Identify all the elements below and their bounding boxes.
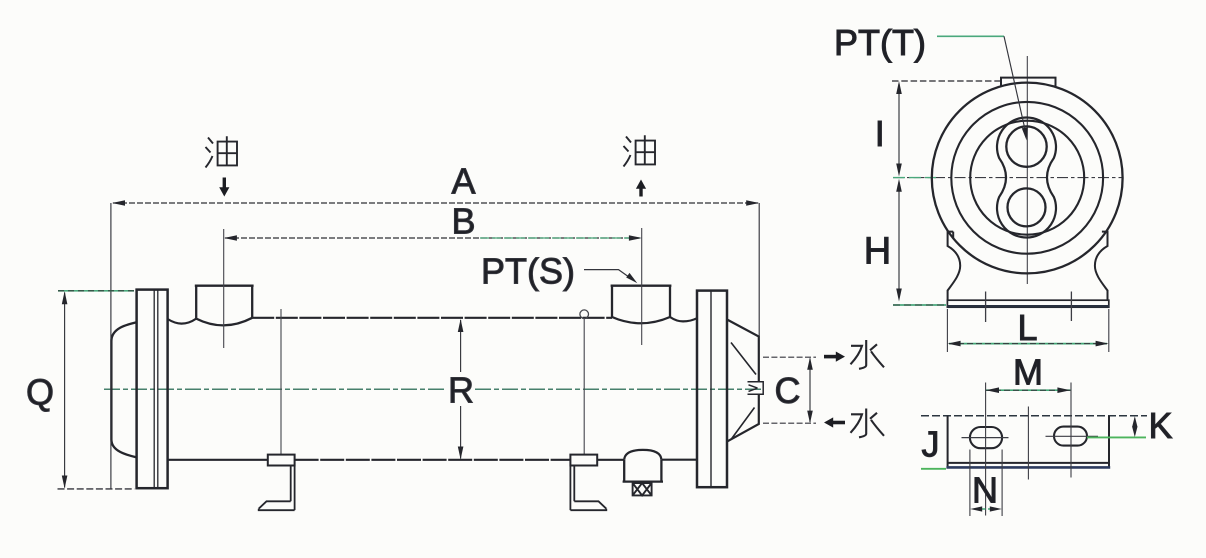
left bracket centerline [280,309,282,455]
oil flow arrow up [639,189,642,197]
left slot vertical centerline [985,383,987,516]
right bracket centerline [583,319,585,455]
svg-text:J: J [922,424,940,465]
svg-text:A: A [451,161,475,202]
right oil nozzle PT(S) [611,286,672,317]
dim L extensions [947,309,1108,352]
foot plate sides [948,416,1109,469]
plate mid vertical centerline [1027,407,1029,480]
svg-text:PT(T): PT(T) [834,22,926,63]
svg-text:L: L [1017,307,1037,348]
svg-text:H: H [864,231,891,273]
dim A right extension [758,203,760,336]
dim A line [113,202,758,204]
right nozzle centerline [641,228,643,345]
left flange [137,290,168,489]
water label top [851,340,885,369]
left bracket tab [268,455,295,466]
shell top line with saddle dips [168,319,197,324]
left slot horizontal centerline [962,437,1009,439]
svg-text:K: K [1148,405,1172,446]
svg-text:B: B [451,201,475,242]
dim N arrows [975,508,997,510]
outer shell circle [932,83,1123,274]
oil label right [624,135,656,166]
svg-text:PT(S): PT(S) [481,251,575,292]
foot left flank [948,232,961,300]
left oil nozzle saddle arc [196,318,252,326]
right flange inner line [710,291,712,487]
dim H line [898,182,900,298]
shell bottom line [168,459,268,461]
left bracket foot [259,501,295,510]
PT(S) leader [584,270,635,281]
left oil nozzle [195,286,254,319]
dim A left extension (dome edge line) [110,203,112,489]
svg-text:R: R [448,370,474,411]
right slot vertical centerline [1070,383,1072,478]
right oil nozzle saddle arc [612,317,670,323]
dim C line [809,359,811,423]
foot plate top dashed edge with extensions [921,415,1147,417]
water spigot notch [748,382,764,394]
baseplate [947,300,1108,307]
dim Q extension top (green) [58,290,134,292]
right bracket leg [570,466,574,511]
left bracket leg [291,466,295,511]
PT(T) leader green segment [937,35,1004,37]
left nozzle centerline [223,229,225,348]
top port circle [1006,126,1046,166]
water inlet arrow [824,355,836,359]
right bonnet cone [727,320,759,442]
svg-text:Q: Q [26,372,54,413]
dim M line [986,389,1070,391]
figure-8 port boss outline [997,117,1056,237]
shell centerline [104,388,447,390]
end view vertical centerline [1026,56,1028,284]
oil label left [206,136,238,167]
svg-text:C: C [775,370,801,411]
right slot [1054,427,1087,446]
drain boss sides [623,460,663,482]
svg-text:M: M [1013,352,1043,393]
right slot horizontal centerline [1046,435,1099,437]
middle circle [951,102,1103,254]
left flange inner lines [154,290,158,488]
water label bottom [851,409,885,438]
left bonnet dome [111,322,136,457]
right bracket foot [570,501,606,510]
water outlet arrow [833,421,845,425]
foot plate bottom second line (navy) [946,466,1110,469]
end view horizontal centerline [893,177,1122,179]
oil flow arrow down [223,178,226,189]
inner circle [970,121,1084,235]
dim I line [898,84,900,171]
bottom port circle [1008,188,1046,226]
K reference green line [1087,436,1146,438]
PT(T) leader slant [1004,36,1026,132]
foot plate bottom line [948,462,1109,464]
top boss tab [1001,78,1056,87]
foot right flank [1095,232,1108,300]
dim C extensions [763,356,816,358]
dim I extension dashed [892,80,1000,82]
green tick bottom left [921,468,946,470]
cone inner diagonals [731,343,756,440]
svg-text:I: I [875,113,885,154]
right bracket tab [570,455,597,466]
dim H bottom extension green [893,304,946,306]
dim B line [225,237,641,239]
left slot [970,427,1002,448]
baseplate bolt ticks [986,292,1072,323]
svg-text:N: N [972,470,998,511]
drain boss arch [624,450,661,460]
dim L line [949,343,1107,345]
dim Q line [64,293,66,488]
drain plug with hatch [633,483,652,495]
dim Q extension bottom [58,488,135,490]
dim R line [460,320,462,372]
right flange [697,291,727,488]
dim K line [1134,419,1136,435]
right bracket reference circle [580,310,589,319]
dim N extensions [970,450,1002,517]
